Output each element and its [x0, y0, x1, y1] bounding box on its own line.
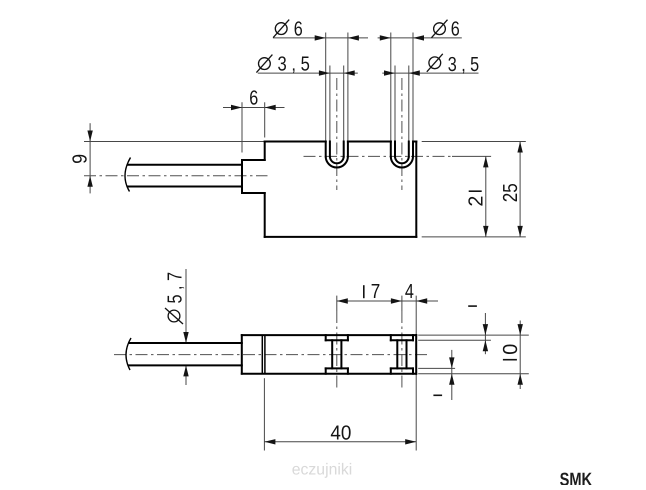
svg-text:3 , 5: 3 , 5	[448, 54, 480, 76]
svg-text:9: 9	[70, 154, 92, 164]
svg-text:0: 0	[500, 344, 522, 355]
svg-text:2: 2	[466, 196, 488, 207]
svg-text:4: 4	[405, 281, 414, 303]
svg-text:7: 7	[371, 281, 381, 303]
svg-text:6: 6	[451, 19, 460, 41]
svg-text:6: 6	[294, 19, 303, 41]
svg-text:25: 25	[500, 183, 522, 202]
svg-text:5 , 7: 5 , 7	[165, 272, 187, 304]
svg-text:40: 40	[330, 422, 351, 444]
svg-text:SMK: SMK	[560, 469, 593, 486]
svg-text:3 , 5: 3 , 5	[278, 54, 310, 76]
svg-text:6: 6	[249, 87, 258, 109]
svg-text:eczujniki: eczujniki	[292, 462, 353, 479]
